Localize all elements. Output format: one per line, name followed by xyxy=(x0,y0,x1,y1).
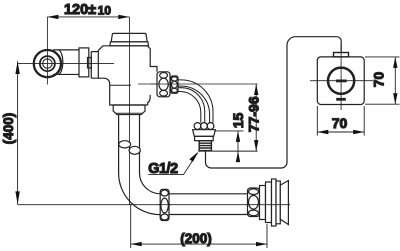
pipe coupling nut xyxy=(160,189,169,220)
wall plate xyxy=(317,57,364,105)
slip joint ellipse left xyxy=(119,141,131,148)
centerline valve vertical xyxy=(129,17,131,205)
plate circle xyxy=(328,68,354,94)
valve tailpipe walls xyxy=(119,114,140,173)
wall flange disc 1 xyxy=(260,186,266,220)
svg-text:(200): (200) xyxy=(180,231,212,246)
valve body outline xyxy=(91,46,157,105)
button mounting flange xyxy=(79,48,89,77)
push button outer ring xyxy=(34,50,61,77)
dimension 77-96 xyxy=(254,84,258,151)
G1/2 fitting flange xyxy=(193,130,216,137)
wall flange disc 2 xyxy=(266,182,272,223)
push button middle circle xyxy=(40,56,55,71)
G1/2 leader xyxy=(148,152,198,175)
dimension (400) xyxy=(15,61,19,204)
centerline flush pipe horizontal xyxy=(18,204,290,206)
centerline over wall flange xyxy=(246,204,290,206)
wall flange disc 4 xyxy=(276,181,280,224)
valve cap xyxy=(111,33,147,41)
push button inner circle xyxy=(43,59,52,68)
wall flange nut xyxy=(248,188,260,217)
dimension 70 bottom xyxy=(317,106,364,136)
valve body inner shelf line xyxy=(110,84,131,86)
centerline button horizontal xyxy=(18,63,114,65)
G1/2 fitting collar xyxy=(195,136,214,140)
recess box outline xyxy=(206,37,342,168)
centerline valve outlet horizontal xyxy=(138,83,258,85)
supply pipe curve xyxy=(178,80,213,123)
wall flange disc 3 xyxy=(272,179,277,226)
outlet hex nut xyxy=(171,76,178,93)
valve cap band xyxy=(110,42,149,46)
slip joint ellipse right xyxy=(129,146,140,154)
svg-text:70: 70 xyxy=(371,72,387,88)
svg-text:70: 70 xyxy=(332,115,348,131)
button housing cylinder xyxy=(53,50,79,75)
wall flange bell xyxy=(280,181,288,225)
centerline button vertical xyxy=(46,17,48,85)
plate lower mark xyxy=(336,98,346,101)
button housing end arc xyxy=(59,50,63,74)
G1/2 threaded stub xyxy=(199,141,211,151)
svg-text:120±10: 120±10 xyxy=(64,2,111,18)
flange tab xyxy=(88,58,92,68)
wall plate horizontal centerline xyxy=(310,80,373,82)
svg-text:77-96: 77-96 xyxy=(246,96,262,132)
G1/2 fitting nut circles xyxy=(194,123,201,130)
centerline over coupling nut xyxy=(158,204,171,206)
dimension (200) xyxy=(131,204,267,248)
wall plate vertical centerline xyxy=(340,44,342,110)
dimension 70 right xyxy=(365,57,400,104)
dimension 120±10 xyxy=(47,15,129,19)
outlet union nut xyxy=(157,72,170,97)
elbow xyxy=(119,173,161,215)
svg-text:15: 15 xyxy=(230,113,246,129)
valve bottom nut xyxy=(113,105,145,115)
wall plate tab xyxy=(334,53,349,57)
dimension 15 xyxy=(216,131,244,162)
svg-text:(400): (400) xyxy=(1,113,16,145)
horizontal pipe xyxy=(160,194,248,215)
centerline over outlet nuts xyxy=(151,83,181,85)
plate screw slot xyxy=(336,80,347,83)
wall line xyxy=(198,150,258,152)
